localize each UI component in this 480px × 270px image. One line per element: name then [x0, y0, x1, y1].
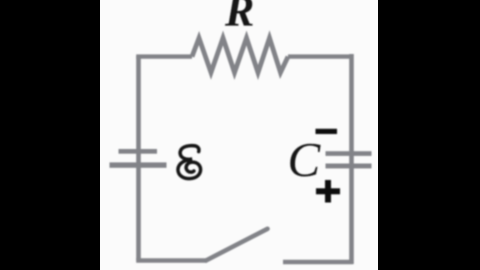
wire: top-right segment: [288, 54, 353, 58]
wire: left vertical branch: [136, 56, 141, 261]
svg-text:C: C: [288, 132, 322, 187]
wire: bottom-right segment: [283, 260, 353, 265]
battery EMF source: short top plate: [119, 149, 158, 154]
plus sign (capacitor bottom polarity): [316, 188, 340, 194]
capacitor C top plate: [326, 151, 372, 156]
minus sign (capacitor top polarity): [316, 129, 338, 134]
switch S1 (open blade): [206, 229, 268, 261]
wire: right vertical branch: [349, 54, 354, 264]
label EMF script-E: [178, 146, 201, 179]
white schematic panel: [100, 0, 378, 270]
svg-text:R: R: [224, 0, 254, 35]
wire: top-left segment: [136, 54, 192, 58]
resistor R1 zigzag: [192, 38, 288, 73]
battery EMF source: long bottom plate: [110, 162, 167, 167]
capacitor C bottom plate: [326, 164, 372, 169]
wire: bottom-left segment: [136, 258, 207, 263]
